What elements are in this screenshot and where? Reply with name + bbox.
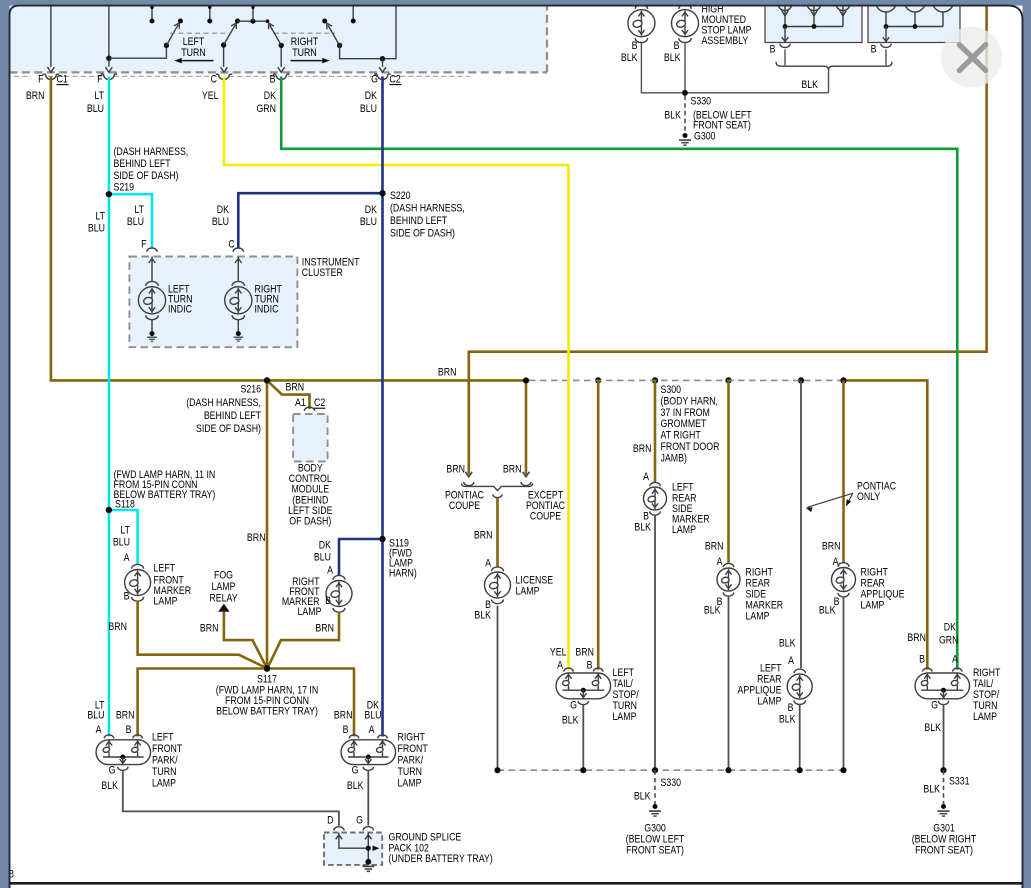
svg-text:BLK: BLK: [779, 714, 796, 726]
svg-text:S330: S330: [660, 777, 681, 789]
svg-text:LAMP: LAMP: [758, 696, 782, 708]
BLK wire right rear applique to G300 bus: [843, 597, 845, 771]
svg-text:B: B: [770, 44, 776, 56]
svg-text:TURN: TURN: [398, 766, 422, 778]
ground G301: [941, 804, 946, 809]
svg-text:BRN: BRN: [26, 90, 45, 102]
svg-text:F: F: [38, 74, 43, 86]
svg-text:GRN: GRN: [256, 103, 276, 115]
DK BLU branch to right front marker lamp: [339, 539, 383, 575]
BLK dashed to ground G300 (top): [684, 96, 686, 133]
svg-text:BLU: BLU: [212, 216, 229, 228]
switch arm 3 pivot wire to B pin: [280, 45, 282, 67]
svg-text:BLK: BLK: [924, 722, 941, 734]
svg-text:BRN: BRN: [247, 532, 266, 544]
svg-text:FOG: FOG: [214, 570, 233, 582]
svg-text:BLK: BLK: [562, 715, 579, 727]
BRN branch S216 to BCM A1: [267, 380, 310, 409]
lamp right front park/turn: [341, 740, 396, 765]
contact stub x353.2: [352, 0, 354, 21]
svg-text:BLK: BLK: [819, 605, 836, 617]
connector C2 pin G: [379, 67, 386, 72]
svg-text:COUPE: COUPE: [530, 511, 562, 523]
splice pack internal D wire: [339, 833, 368, 849]
contact stub x209.8: [209, 0, 211, 21]
contact dot arm4: [322, 19, 327, 24]
svg-text:YEL: YEL: [550, 647, 567, 659]
switch arm 3: [279, 43, 284, 48]
BCM connector A1/C2: [304, 407, 314, 411]
right indic ground wire: [237, 320, 239, 331]
svg-text:B: B: [871, 44, 877, 56]
wire BRN C1-F down and across (main BRN bus): [51, 77, 526, 381]
switch arm 4: [337, 43, 342, 48]
splice dots on S300 bus: [523, 377, 529, 383]
svg-text:OF DASH): OF DASH): [289, 516, 331, 528]
svg-text:BLU: BLU: [113, 537, 130, 549]
svg-text:A: A: [124, 552, 130, 564]
bulb in right assembly box 1: [876, 2, 897, 13]
contact row arm2: [235, 19, 240, 24]
svg-text:BRN: BRN: [200, 623, 219, 635]
svg-text:BRN: BRN: [633, 443, 652, 455]
wire YEL C to left tail lamp A: [224, 77, 569, 670]
splice S219: [106, 191, 112, 197]
splice S330 (top): [682, 90, 688, 96]
pontiac only arrows: [808, 493, 853, 507]
BLK wire bulb2 to S330: [684, 42, 686, 93]
svg-text:S219: S219: [114, 182, 135, 194]
lamp right rear side marker: [723, 563, 734, 567]
bulb in left assembly box 1: [778, 4, 792, 11]
svg-text:A: A: [952, 654, 958, 666]
splice S216: [264, 377, 270, 383]
svg-text:DK: DK: [365, 204, 378, 216]
svg-text:C2: C2: [390, 74, 402, 86]
BRN bus right tail to right tail lamp: [844, 380, 928, 669]
bulb in right assembly box 2: [905, 2, 926, 13]
svg-text:BRN: BRN: [286, 382, 305, 394]
svg-text:TURN: TURN: [181, 47, 205, 59]
body control module box: [293, 414, 328, 462]
svg-text:BRN: BRN: [438, 367, 457, 379]
svg-text:BLK: BLK: [779, 638, 796, 650]
pin B wire right assembly: [885, 49, 887, 65]
svg-text:RIGHT: RIGHT: [398, 732, 425, 744]
svg-text:37 IN FROM: 37 IN FROM: [660, 407, 709, 419]
svg-text:C: C: [228, 239, 234, 251]
svg-text:BLK: BLK: [634, 522, 651, 534]
svg-text:BLU: BLU: [314, 552, 331, 564]
connector C1 pin F ltblu: [106, 67, 113, 72]
svg-text:S216: S216: [240, 384, 261, 396]
svg-text:A: A: [717, 556, 723, 568]
svg-text:BELOW BATTERY TRAY): BELOW BATTERY TRAY): [216, 706, 318, 718]
svg-text:B: B: [919, 654, 925, 666]
svg-text:YEL: YEL: [202, 90, 219, 102]
left assembly internal wires: [785, 26, 843, 28]
splice pack internal G wire: [367, 833, 369, 862]
svg-text:A: A: [96, 724, 102, 736]
lamp right front marker: [333, 575, 345, 579]
svg-text:AT RIGHT: AT RIGHT: [660, 430, 700, 442]
ground (left indic): [149, 331, 154, 336]
svg-text:LAMP: LAMP: [746, 611, 770, 623]
svg-text:BLK: BLK: [634, 791, 651, 803]
connector C1 pin B: [278, 67, 285, 72]
right turn indicator feed: [237, 257, 239, 282]
svg-text:INDIC: INDIC: [168, 304, 192, 316]
splice S331: [940, 767, 946, 773]
svg-text:BRN: BRN: [315, 623, 334, 635]
svg-text:DK: DK: [944, 622, 957, 634]
svg-text:FRONT: FRONT: [398, 743, 428, 755]
svg-text:(UNDER BATTERY TRAY): (UNDER BATTERY TRAY): [388, 853, 492, 865]
turn signal switch header band: [10, 0, 548, 72]
svg-text:LAMP: LAMP: [672, 524, 696, 536]
arm 4 pivot to G pin wire: [340, 0, 396, 59]
BLK wire right lamp G to splice pack G: [367, 770, 369, 825]
lamp left front park/turn: [96, 740, 151, 765]
contact dot arm1: [178, 19, 183, 24]
svg-text:G: G: [570, 700, 577, 712]
page bottom border: [10, 882, 1023, 885]
svg-text:(DASH HARNESS,: (DASH HARNESS,: [186, 397, 261, 409]
svg-text:SIDE OF DASH): SIDE OF DASH): [390, 228, 455, 240]
ground (right indic): [236, 331, 241, 336]
BLK wire left rear side marker to G300 bus: [654, 516, 656, 771]
svg-text:LT: LT: [120, 525, 130, 537]
svg-text:BLK: BLK: [664, 52, 681, 64]
svg-text:B: B: [124, 591, 130, 603]
svg-text:FRONT DOOR: FRONT DOOR: [660, 441, 719, 453]
svg-text:BRN: BRN: [907, 632, 926, 644]
svg-text:(DASH HARNESS,: (DASH HARNESS,: [390, 203, 465, 215]
svg-text:BRN: BRN: [705, 541, 724, 553]
svg-text:PARK/: PARK/: [398, 755, 424, 767]
S117 distribution bar: [138, 669, 354, 737]
svg-text:BLU: BLU: [87, 710, 104, 722]
svg-text:LAMP: LAMP: [516, 586, 540, 598]
svg-text:B: B: [343, 724, 349, 736]
svg-text:(DASH HARNESS,: (DASH HARNESS,: [114, 146, 189, 158]
svg-text:SIDE OF DASH): SIDE OF DASH): [114, 170, 179, 182]
svg-text:BLK: BLK: [347, 780, 364, 792]
lamp license: [492, 567, 504, 571]
svg-text:F: F: [97, 74, 102, 86]
svg-text:BRN: BRN: [116, 710, 135, 722]
bulb in left assembly box 2: [807, 4, 821, 11]
ground G300 (top): [683, 133, 688, 138]
wire DK GRN B to right tail lamp A: [281, 77, 957, 670]
pin B wire left assembly: [784, 49, 786, 65]
svg-text:BLU: BLU: [127, 216, 144, 228]
brace joining assembly grounds: [776, 62, 892, 71]
svg-text:B: B: [270, 74, 276, 86]
svg-text:G: G: [109, 765, 116, 777]
left indic ground wire: [151, 320, 153, 331]
svg-text:BRN: BRN: [822, 541, 841, 553]
BRN wire fog relay to S117: [224, 612, 267, 668]
svg-text:BLK: BLK: [801, 79, 818, 91]
svg-text:A: A: [643, 471, 649, 483]
svg-text:BRN: BRN: [446, 464, 465, 476]
svg-text:GRN: GRN: [939, 635, 959, 647]
left turn indicator feed: [151, 257, 153, 282]
lamp left rear side marker: [650, 482, 661, 486]
right assembly internal wires: [886, 26, 943, 28]
svg-text:BLU: BLU: [360, 216, 377, 228]
svg-text:BRN: BRN: [334, 710, 353, 722]
close (X) button: [941, 27, 1002, 88]
svg-text:LT: LT: [94, 90, 104, 102]
high mounted stop lamp bulb 2: [679, 4, 691, 9]
svg-text:PARK/: PARK/: [152, 755, 178, 767]
svg-text:FRONT SEAT): FRONT SEAT): [915, 845, 973, 857]
tail lamp assembly box (left, cut off): [765, 0, 862, 43]
lamp left turn indicator: [146, 281, 159, 286]
svg-text:BLK: BLK: [923, 784, 940, 796]
wire LT BLU C1-F down to left front park/turn lamp: [108, 77, 111, 737]
svg-text:LAMP: LAMP: [398, 778, 422, 790]
svg-text:BLK: BLK: [101, 780, 118, 792]
BLK wire bulb1 to S330: [641, 42, 685, 93]
wire junction to switch arm 1 pivot: [109, 45, 166, 58]
svg-text:B: B: [587, 660, 593, 672]
wire to C1 pin F (LT BLU side): [108, 0, 110, 67]
LT BLU branch to instrument cluster F: [109, 194, 152, 248]
svg-text:GROMMET: GROMMET: [660, 418, 706, 430]
svg-text:LAMP: LAMP: [612, 711, 636, 723]
switch arm 1 (left turn): [164, 43, 169, 48]
left turn arrow: [177, 60, 214, 62]
svg-text:LAMP: LAMP: [152, 778, 176, 790]
junction to C2 G: [380, 56, 385, 61]
switch gang dashed linkage left: [170, 32, 225, 34]
svg-text:D: D: [327, 815, 333, 827]
cluster connector C: [233, 248, 243, 252]
tail lamp assembly box (right, cut off): [868, 0, 960, 43]
junction dots overlay: [106, 191, 112, 197]
svg-text:SIDE OF DASH): SIDE OF DASH): [196, 423, 261, 435]
bulb in left assembly box 3: [836, 4, 850, 11]
lamp right rear applique: [838, 563, 849, 567]
lamp right tail/stop/turn: [915, 673, 970, 699]
svg-text:A1: A1: [295, 397, 306, 409]
svg-text:(BODY HARN,: (BODY HARN,: [660, 396, 717, 408]
DK BLU branch to instrument cluster C: [238, 193, 382, 248]
lamp left tail/stop/turn: [556, 673, 611, 699]
svg-text:G: G: [356, 815, 363, 827]
lamp left front marker: [132, 564, 144, 568]
S300 dashed bus: [529, 379, 841, 381]
svg-text:S300: S300: [660, 384, 681, 396]
splice pack connector D: [334, 827, 344, 831]
svg-text:BLU: BLU: [87, 103, 104, 115]
svg-text:JAMB): JAMB): [660, 453, 686, 465]
splice pack connector G: [363, 827, 373, 831]
svg-text:RELAY: RELAY: [209, 593, 238, 605]
contact stub x152: [151, 0, 153, 21]
svg-text:G: G: [352, 765, 359, 777]
svg-text:B: B: [325, 595, 331, 607]
BLK wire left lamp G to splice pack D: [123, 770, 339, 825]
BRN branch to right rear applique: [842, 380, 845, 562]
svg-text:S330: S330: [690, 96, 711, 108]
svg-text:FRONT SEAT): FRONT SEAT): [626, 845, 684, 857]
connector C1 pin C: [221, 67, 228, 72]
svg-text:S118: S118: [115, 499, 135, 511]
svg-text:S220: S220: [390, 190, 411, 202]
G300 dashed bus: [498, 769, 844, 771]
bulb in right assembly box 3: [933, 2, 954, 13]
junction dot internal: [366, 846, 371, 851]
svg-text:BLK: BLK: [704, 605, 721, 617]
svg-text:CLUSTER: CLUSTER: [302, 267, 343, 279]
fog lamp relay arrow: [218, 604, 229, 612]
svg-text:BEHIND LEFT: BEHIND LEFT: [390, 215, 447, 227]
svg-text:C2: C2: [314, 397, 326, 409]
svg-text:HARN): HARN): [389, 568, 417, 580]
svg-text:TURN: TURN: [292, 47, 316, 59]
svg-text:BRN: BRN: [474, 530, 493, 542]
svg-text:A: A: [788, 655, 794, 667]
svg-text:A: A: [327, 565, 333, 577]
instrument cluster box: [129, 257, 297, 348]
wire C1 pin F from top: [50, 0, 52, 67]
BLK wire left tail G to G300 bus: [582, 705, 584, 771]
BRN branch to left rear side marker: [654, 380, 657, 482]
svg-text:G: G: [371, 74, 378, 86]
svg-text:ASSEMBLY: ASSEMBLY: [702, 35, 749, 47]
svg-text:F: F: [141, 239, 146, 251]
ground splice pack 102 box: [324, 833, 382, 865]
svg-text:BLK: BLK: [621, 52, 638, 64]
right turn arrow: [291, 60, 328, 62]
lamp right turn indicator: [232, 281, 245, 286]
svg-text:G: G: [931, 700, 938, 712]
junction on F wire: [106, 56, 111, 61]
svg-text:ONLY: ONLY: [857, 491, 881, 503]
BRN wire right marker B to S117 fan: [268, 612, 339, 668]
splice S119: [379, 536, 385, 542]
BRN branch to right rear side marker: [727, 380, 730, 562]
contact stub x253: [252, 0, 254, 21]
svg-text:A: A: [557, 660, 563, 672]
svg-text:LAMP: LAMP: [860, 600, 884, 612]
svg-text:LEFT: LEFT: [154, 563, 176, 575]
svg-text:BLU: BLU: [88, 223, 105, 235]
wire S330 to brace riser: [685, 92, 829, 94]
wire BRN right side: top to bus riser: [469, 6, 987, 475]
svg-text:B: B: [674, 40, 680, 52]
svg-text:BEHIND LEFT: BEHIND LEFT: [114, 158, 171, 170]
svg-text:BRN: BRN: [575, 647, 594, 659]
svg-text:BLU: BLU: [360, 103, 377, 115]
svg-text:BLU: BLU: [364, 710, 381, 722]
splice S118: [106, 507, 112, 513]
svg-text:LAMP: LAMP: [298, 606, 322, 618]
svg-text:C: C: [211, 74, 217, 86]
LT BLU branch to left front marker lamp: [109, 510, 138, 564]
svg-text:DK: DK: [217, 204, 230, 216]
svg-text:BRN: BRN: [108, 621, 127, 633]
svg-text:B: B: [632, 40, 638, 52]
switch arm 2: [221, 42, 226, 47]
ground (splice pack): [365, 859, 371, 865]
BLK wire license to G300 bus: [497, 606, 499, 770]
svg-text:B: B: [126, 724, 132, 736]
svg-text:DK: DK: [264, 90, 277, 102]
BRN branch to left tail lamp B: [597, 380, 600, 669]
svg-text:C1: C1: [56, 74, 68, 86]
svg-text:LAMP: LAMP: [154, 596, 178, 608]
svg-text:DK: DK: [365, 90, 378, 102]
svg-text:LT: LT: [95, 211, 105, 223]
slate frame: [0, 0, 1031, 6]
BRN wire left marker B to S117 fan: [138, 601, 267, 668]
svg-text:INDIC: INDIC: [254, 304, 278, 316]
svg-text:TURN: TURN: [152, 766, 176, 778]
wire DK BLU C2-G down to right front park/turn lamp: [381, 77, 384, 737]
cluster connector F: [147, 248, 157, 252]
connector C1 pin F: [48, 67, 55, 72]
BLK wire from brace to S330: [828, 70, 830, 92]
connector C1/C2 thin dashed line: [14, 75, 31, 77]
ground G300: [653, 804, 658, 809]
svg-text:B: B: [788, 702, 794, 714]
merge bracket pontiac coupe / except: [464, 482, 474, 486]
svg-text:LAMP: LAMP: [973, 711, 997, 723]
svg-text:S331: S331: [949, 776, 970, 788]
BRN wire S216 down to S117: [266, 380, 269, 668]
svg-text:BEHIND LEFT: BEHIND LEFT: [204, 410, 261, 422]
splice dots on G300 bus: [494, 767, 500, 773]
svg-text:LEFT: LEFT: [152, 732, 174, 744]
splice S117: [264, 665, 271, 672]
svg-text:G300: G300: [694, 131, 716, 143]
BLK wire right rear side marker to G300 bus: [728, 597, 730, 771]
BLK wire left rear applique to G300 bus: [799, 705, 801, 771]
svg-text:FRONT: FRONT: [152, 743, 182, 755]
svg-text:COUPE: COUPE: [449, 500, 481, 512]
svg-text:BLK: BLK: [664, 110, 681, 122]
BRN bus branch at 526 (except pontiac coupe): [525, 380, 528, 474]
svg-text:BRN: BRN: [503, 464, 522, 476]
splice S220: [379, 190, 385, 196]
high mounted stop lamp bulb 1: [635, 4, 647, 9]
header band dashed border: [10, 71, 548, 73]
svg-text:DK: DK: [319, 540, 332, 552]
BLK branch to left rear applique (pontiac only): [800, 380, 802, 668]
BRN wire to license lamp: [496, 498, 499, 566]
lamp left rear applique: [794, 669, 806, 673]
switch arm 2 pivot wire to C pin: [223, 45, 225, 67]
svg-text:LT: LT: [134, 204, 144, 216]
svg-text:A: A: [369, 724, 375, 736]
svg-text:A: A: [485, 558, 491, 570]
svg-text:BLK: BLK: [474, 610, 491, 622]
BLK wire right tail G to S331: [943, 705, 945, 771]
switch gang dashed linkage right: [274, 32, 335, 34]
svg-text:LAMP: LAMP: [212, 581, 236, 593]
